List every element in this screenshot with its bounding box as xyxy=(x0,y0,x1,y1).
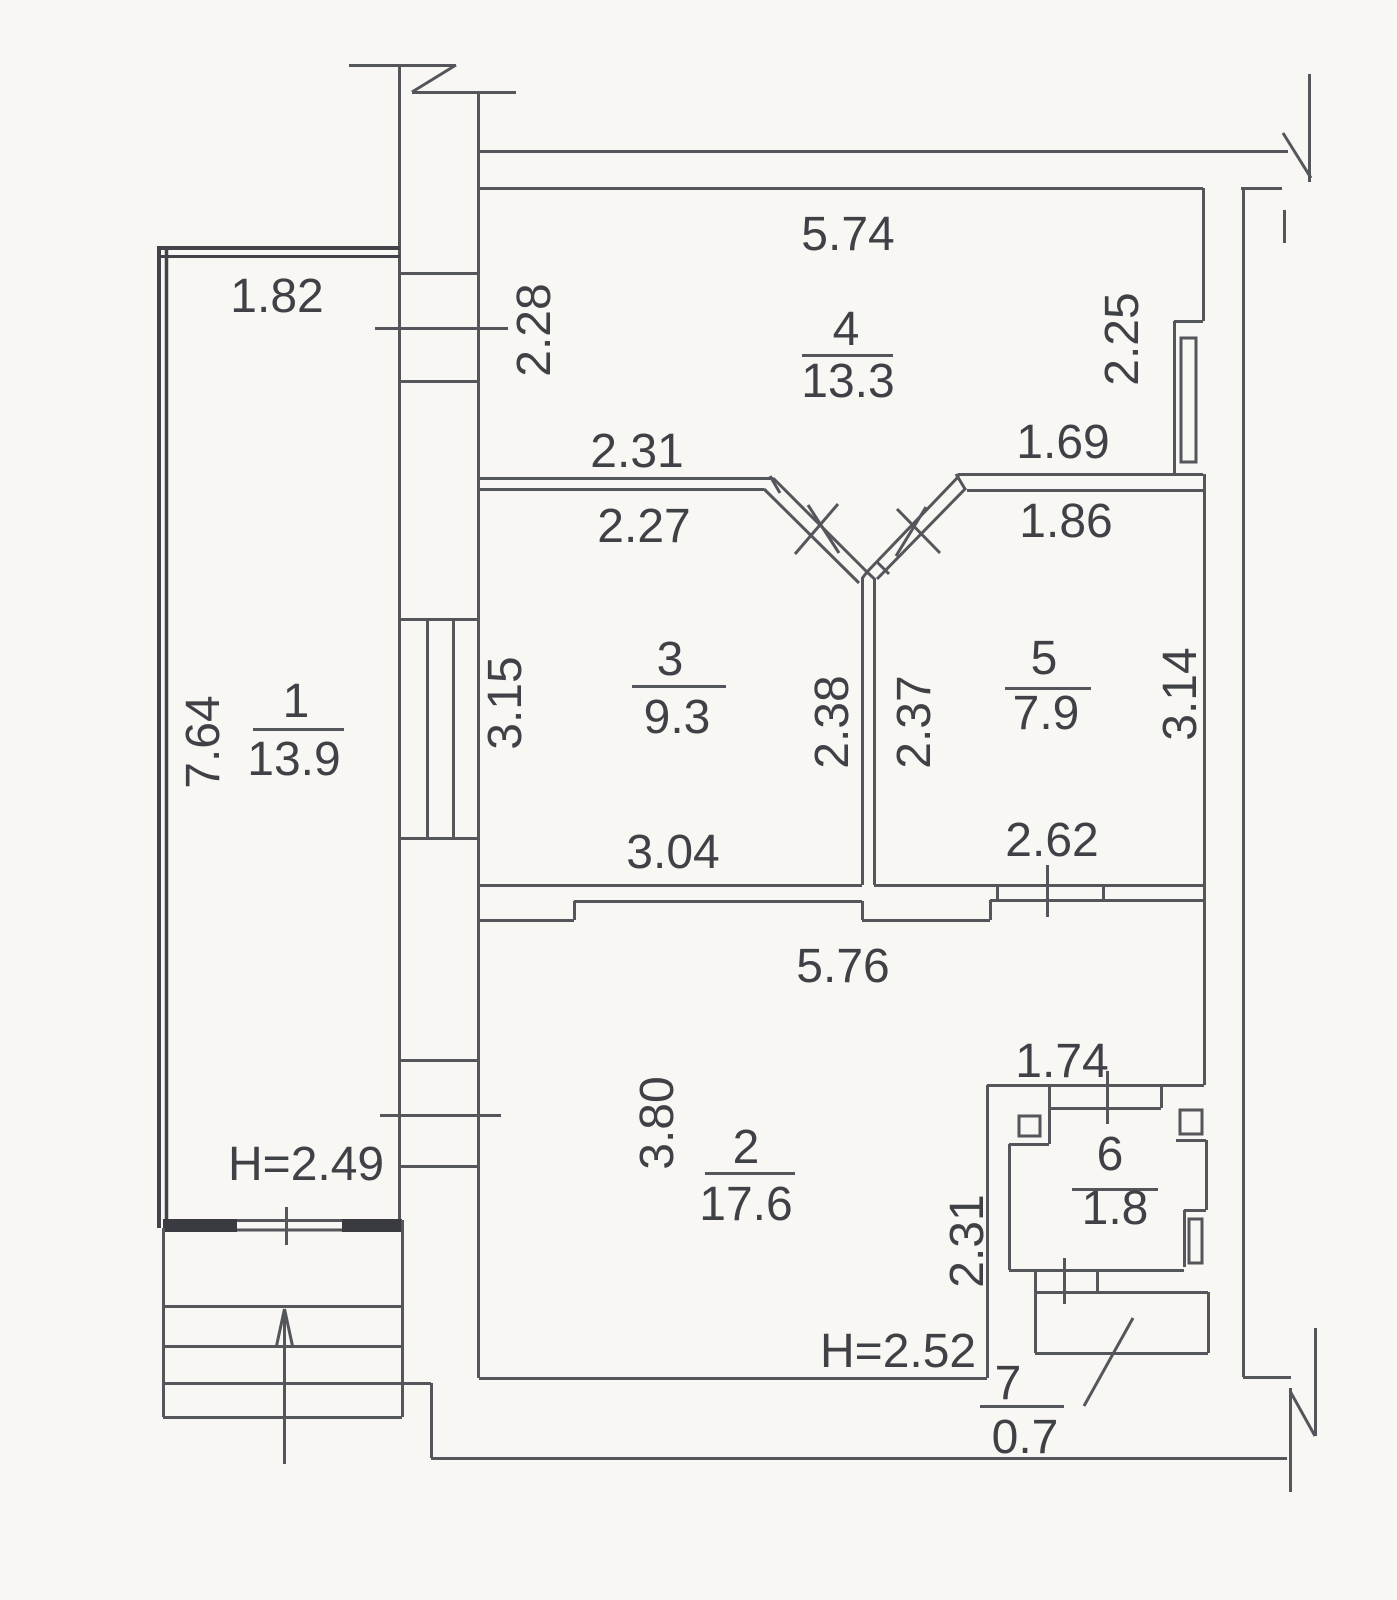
svg-text:3.04: 3.04 xyxy=(626,826,719,879)
wire strip dim line y328 xyxy=(375,327,508,330)
wire room6 door jamb x1161 xyxy=(1160,1085,1163,1108)
svg-text:13.3: 13.3 xyxy=(801,355,894,408)
wall balcony left inner xyxy=(165,250,169,1228)
wire strip tick y273 xyxy=(399,272,478,275)
wire dim tick 1.74 xyxy=(1106,1071,1109,1124)
wall room6 notch y1144 xyxy=(1009,1143,1049,1146)
wire room 6 fraction line xyxy=(1072,1188,1158,1191)
wall room6 right step y1140 xyxy=(1176,1139,1206,1142)
wall step x431 xyxy=(430,1383,433,1458)
wire X mark left stroke2 xyxy=(808,505,839,553)
wire top-left break tick lower xyxy=(412,91,516,94)
wire V bottom cap xyxy=(877,562,889,574)
wire top-right break vertical short xyxy=(1283,210,1286,243)
svg-text:5.74: 5.74 xyxy=(801,208,894,261)
wall V right diagonal inner xyxy=(877,488,966,579)
svg-text:7.9: 7.9 xyxy=(1013,687,1080,740)
svg-text:0.7: 0.7 xyxy=(992,1411,1059,1464)
wall room6 inner left jamb x1049 xyxy=(1048,1108,1051,1144)
wall room3 top lower y489 xyxy=(479,488,764,491)
wire V left diagonal end cap xyxy=(770,476,780,493)
wall room6 inner top y1108 xyxy=(1049,1107,1161,1110)
wall left strip inner face x478 xyxy=(477,92,480,1378)
svg-text:2.27: 2.27 xyxy=(597,500,690,553)
wall room7 right x1208 xyxy=(1207,1292,1210,1353)
svg-text:1.8: 1.8 xyxy=(1082,1182,1149,1235)
wire dim tick room6 door xyxy=(1063,1258,1066,1304)
wire room 7 fraction line xyxy=(980,1405,1064,1408)
wall room6 block top y1085 xyxy=(987,1084,1204,1087)
wire balcony bottom tick x286 xyxy=(285,1207,288,1245)
svg-text:5: 5 xyxy=(1031,632,1058,685)
wire strip tick y1166 xyxy=(400,1165,478,1168)
window room6 east xyxy=(1189,1219,1202,1263)
wall left strip outer face x398 xyxy=(398,65,401,1220)
svg-text:2.28: 2.28 xyxy=(508,283,561,376)
wire bottom-right break vertical long xyxy=(1289,1388,1292,1492)
wire room 2 fraction line xyxy=(705,1172,795,1175)
wall V left diagonal outer xyxy=(773,478,867,572)
wall balcony top outer xyxy=(157,246,400,250)
wall exterior top line y151 xyxy=(478,150,1288,153)
wire room 3 fraction line xyxy=(632,685,726,688)
wall balcony top inner xyxy=(157,255,400,258)
stairs tread y1346 xyxy=(163,1345,402,1348)
svg-text:3: 3 xyxy=(657,633,684,686)
wall balcony left outer xyxy=(157,247,161,1228)
wall room2 top stepped xyxy=(479,900,1204,921)
wire strip dim line y1115 xyxy=(380,1114,501,1117)
window left strip bottom y838 xyxy=(399,837,478,840)
svg-text:1: 1 xyxy=(283,675,310,728)
wall center x874 xyxy=(867,572,875,885)
wire room6 door jamb x1097 xyxy=(1096,1270,1099,1292)
svg-text:9.3: 9.3 xyxy=(644,691,711,744)
svg-text:1.82: 1.82 xyxy=(230,270,323,323)
wire X mark left stroke1 xyxy=(795,504,838,554)
duct room6 top-left xyxy=(1019,1116,1040,1136)
wire top-right wall stub y188 xyxy=(1241,187,1282,190)
wire dim tick 2.62 xyxy=(1046,865,1049,917)
wall bottom of right wall y1377 xyxy=(1243,1376,1291,1379)
stairs arrow shaft xyxy=(283,1309,286,1464)
wall balcony bottom right segment xyxy=(342,1219,402,1232)
wire bottom-right break diagonal xyxy=(1290,1391,1315,1436)
svg-text:2.37: 2.37 xyxy=(888,675,941,768)
svg-text:1.86: 1.86 xyxy=(1019,495,1112,548)
wall room5 top y490 xyxy=(967,489,1204,492)
wire room 5 fraction line xyxy=(1005,687,1091,690)
wall room6 inner left x1009 xyxy=(1008,1144,1011,1270)
svg-text:7: 7 xyxy=(995,1357,1022,1410)
wall interior right x1204 xyxy=(1203,474,1206,1085)
stairs bottom y1417 xyxy=(163,1416,402,1419)
svg-text:7.64: 7.64 xyxy=(177,695,230,788)
wire top-right break diagonal xyxy=(1283,133,1311,178)
wall exterior bottom y1458 xyxy=(431,1457,1287,1460)
svg-text:2.38: 2.38 xyxy=(806,675,859,768)
wall room7 top y1292 xyxy=(1035,1291,1208,1294)
wire strip tick y1060 xyxy=(399,1059,478,1062)
wire bottom-right break vertical short xyxy=(1314,1328,1317,1436)
svg-text:1.74: 1.74 xyxy=(1015,1035,1108,1088)
svg-text:H=2.49: H=2.49 xyxy=(228,1138,384,1191)
svg-text:17.6: 17.6 xyxy=(699,1178,792,1231)
stairs left edge x163 xyxy=(162,1228,165,1417)
wall room4 right x1203 xyxy=(1202,188,1205,321)
wire room 4 fraction line xyxy=(802,354,893,357)
wall room4 top y188 xyxy=(478,187,1203,190)
svg-text:13.9: 13.9 xyxy=(247,733,340,786)
wall balcony bottom left segment xyxy=(163,1219,237,1232)
wire room6 door jamb x1035 xyxy=(1034,1270,1037,1292)
stairs arrow barb right xyxy=(285,1309,293,1346)
wall V right diagonal outer xyxy=(867,476,959,572)
stairs tread y1306 xyxy=(163,1305,402,1308)
wall room4 bottom right y474 xyxy=(958,473,1203,476)
wall room3 top upper y478 xyxy=(480,477,773,480)
window balcony bottom top edge xyxy=(237,1219,342,1222)
svg-text:H=2.52: H=2.52 xyxy=(820,1325,976,1378)
wall room6 bottom y1270 xyxy=(1009,1269,1184,1272)
duct room6 top-right xyxy=(1180,1110,1202,1134)
svg-text:2: 2 xyxy=(733,1121,760,1174)
wire top-left break diagonal xyxy=(412,65,456,92)
wall room7 bottom y1353 xyxy=(1035,1352,1208,1355)
wall room4 niche face x1174 xyxy=(1173,321,1176,474)
wire top-right break vertical long xyxy=(1308,74,1311,182)
window room4 east xyxy=(1181,338,1196,462)
wall V left diagonal inner xyxy=(764,489,859,583)
svg-text:4: 4 xyxy=(833,303,860,356)
svg-text:3.80: 3.80 xyxy=(631,1076,684,1169)
stairs arrow barb left xyxy=(277,1309,285,1346)
wire room 1 fraction line xyxy=(253,728,344,731)
svg-text:2.31: 2.31 xyxy=(941,1194,994,1287)
wire X mark right stroke1 xyxy=(897,509,940,553)
wire top-left break tick upper xyxy=(349,64,456,67)
svg-text:2.62: 2.62 xyxy=(1005,814,1098,867)
window left strip top y619 xyxy=(399,618,478,621)
wall room6 right step y1210 xyxy=(1184,1209,1206,1212)
wire V right diagonal end cap xyxy=(956,474,965,489)
wall room4 niche top y321 xyxy=(1174,320,1203,323)
wire room6 door jamb x1049 xyxy=(1048,1085,1051,1108)
window balcony bottom lower edge xyxy=(237,1229,342,1232)
wire room7 leader line xyxy=(1084,1318,1133,1406)
wall room7 left x1035 xyxy=(1034,1292,1037,1353)
svg-text:2.25: 2.25 xyxy=(1096,292,1149,385)
wall room2 bottom y1378 xyxy=(479,1377,987,1380)
wall exterior right x1243 xyxy=(1242,188,1245,1377)
stairs tread y1383 xyxy=(163,1382,431,1385)
svg-text:2.31: 2.31 xyxy=(590,425,683,478)
wire door jamb x1103 xyxy=(1102,885,1105,900)
wall center x862 xyxy=(863,572,868,885)
window left strip pane x427 xyxy=(426,619,429,838)
stairs right edge x402 xyxy=(401,1220,404,1417)
svg-text:3.14: 3.14 xyxy=(1154,647,1207,740)
svg-text:6: 6 xyxy=(1097,1128,1124,1181)
wall room6 inner right x1184 xyxy=(1183,1210,1186,1267)
window left strip pane x453 xyxy=(452,619,455,838)
wall room6 block left x987 xyxy=(986,1085,989,1378)
wall room3 bottom y885 xyxy=(479,884,862,887)
svg-text:5.76: 5.76 xyxy=(796,940,889,993)
svg-text:3.15: 3.15 xyxy=(479,656,532,749)
wire X mark right stroke2 xyxy=(896,507,926,556)
svg-text:1.69: 1.69 xyxy=(1016,416,1109,469)
wire strip tick y381 xyxy=(399,380,478,383)
wall room5 bottom y885 xyxy=(874,884,1204,887)
wall room6 right x1206 xyxy=(1205,1140,1208,1210)
wire door jamb x997 xyxy=(996,885,999,900)
